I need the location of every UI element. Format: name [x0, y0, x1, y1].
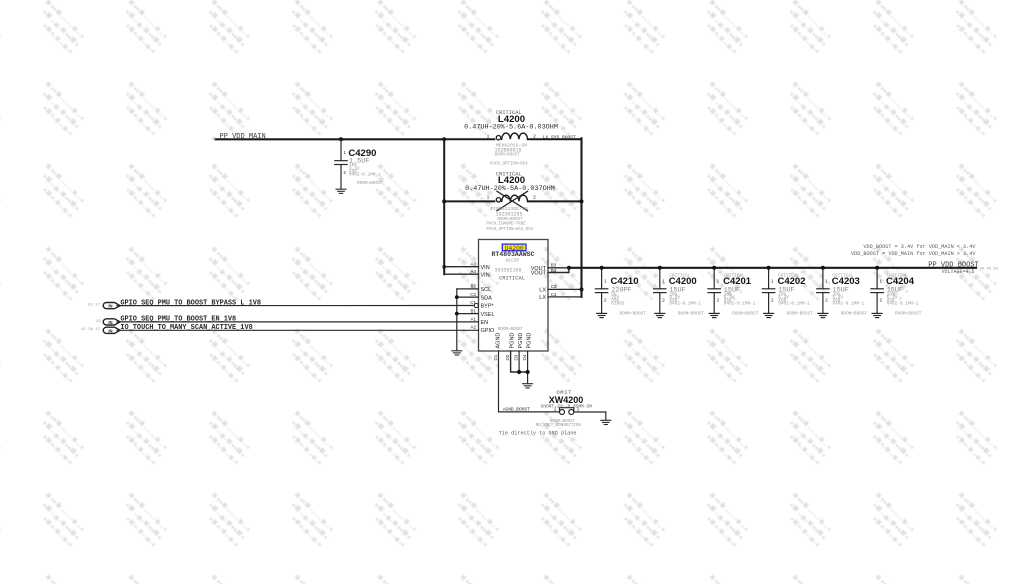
svg-text:01005: 01005 [611, 302, 625, 307]
pin name PGND rotated D4 [527, 333, 533, 349]
U4200 highlight refdes [502, 244, 526, 251]
wire VOUT B4 stub [548, 268, 569, 273]
svg-text:VIN: VIN [481, 272, 490, 278]
node junction at VIN A3 [442, 265, 446, 269]
pin name PGND rotated D3 [518, 333, 524, 349]
BYP active-low bubble [474, 303, 478, 307]
svg-text:1: 1 [825, 279, 828, 284]
svg-text:ROOM=BOOST: ROOM=BOOST [620, 312, 647, 317]
node junction VOUT [567, 266, 571, 270]
svg-text:2: 2 [825, 298, 828, 303]
svg-text:A1: A1 [470, 317, 476, 322]
svg-text:SHORT-2UL-0.05MM-SM: SHORT-2UL-0.05MM-SM [541, 403, 593, 409]
svg-text:A3: A3 [470, 262, 476, 267]
svg-text:1: 1 [487, 134, 490, 139]
wire PGND D2 [511, 351, 528, 372]
capacitor C4200 [654, 268, 666, 318]
svg-text:IO_TOUCH_TO_MANY_SCAN_ACTIVE_1: IO_TOUCH_TO_MANY_SCAN_ACTIVE_1V8 [120, 324, 252, 332]
svg-text:GPIO_SEQ_PMU_TO_BOOST_BYPASS_L: GPIO_SEQ_PMU_TO_BOOST_BYPASS_L_1V8 [120, 299, 261, 307]
ground for SCL/SDA/VSEL [452, 351, 462, 355]
wire LX vertical column [580, 138, 582, 297]
svg-text:0.47UH-20%-5.6A-0.03OHM: 0.47UH-20%-5.6A-0.03OHM [464, 123, 558, 131]
svg-text:SDA: SDA [481, 295, 493, 301]
svg-text:2: 2 [771, 298, 774, 303]
svg-text:29 27: 29 27 [88, 304, 101, 308]
svg-text:2: 2 [604, 298, 607, 303]
svg-text:VOLTAGE=4.5: VOLTAGE=4.5 [942, 269, 975, 275]
svg-text:0402-0.1MM-1: 0402-0.1MM-1 [669, 302, 701, 307]
svg-text:PGND: PGND [518, 333, 524, 349]
svg-text:D2: D2 [505, 354, 510, 360]
svg-text:BYP*: BYP* [481, 304, 495, 310]
svg-text:A2: A2 [470, 325, 476, 330]
svg-text:IN: IN [108, 328, 112, 333]
svg-text:EN: EN [481, 320, 489, 326]
svg-text:29: 29 [96, 320, 101, 324]
svg-text:IN: IN [108, 304, 112, 309]
svg-text:AGND_BOOST: AGND_BOOST [503, 407, 530, 413]
node junction SDA [455, 295, 459, 299]
inductor L4200 (bottom, unstuffed) [445, 195, 582, 202]
svg-text:1: 1 [604, 279, 607, 284]
net PP_VDD_BOOST rail wire [569, 267, 976, 269]
svg-text:1: 1 [662, 279, 665, 284]
wire PGND D4 [527, 351, 529, 383]
wire vertical feed to inductors and VIN [443, 139, 445, 274]
svg-text:A4: A4 [470, 269, 476, 274]
wire LX C3 stub [548, 288, 582, 290]
svg-text:VDD_BOOST = 3.4V for VDD_MAIN: VDD_BOOST = 3.4V for VDD_MAIN < 3.4V [863, 244, 976, 250]
svg-text:VIN: VIN [481, 265, 490, 271]
node junction at inductor 2 input [442, 199, 446, 203]
ground for XW4200 [601, 420, 611, 424]
pin number D2 rotated [505, 354, 510, 360]
svg-text:0402-0.1MM-1: 0402-0.1MM-1 [887, 302, 919, 307]
svg-text:2: 2 [533, 134, 536, 139]
svg-text:SCL: SCL [481, 287, 492, 293]
svg-text:24: 24 [212, 137, 217, 141]
wire LX C4 stub [548, 296, 582, 298]
svg-text:AGND: AGND [496, 333, 502, 349]
svg-text:LX_SYS_BOOST: LX_SYS_BOOST [543, 135, 576, 141]
capacitor C4201 [708, 268, 720, 318]
svg-text:WLCSP: WLCSP [506, 257, 520, 263]
svg-text:ROOM=BOOST: ROOM=BOOST [732, 312, 759, 317]
svg-text:PACK_IGNORE=TRUE: PACK_IGNORE=TRUE [486, 223, 526, 227]
svg-text:2: 2 [343, 170, 346, 175]
IC U4200 body [479, 240, 549, 352]
svg-text:B3: B3 [551, 262, 557, 267]
svg-text:PP_VDD_MAIN: PP_VDD_MAIN [220, 133, 266, 141]
svg-text:0402-0.1MM-1: 0402-0.1MM-1 [724, 302, 756, 307]
svg-text:1: 1 [717, 279, 720, 284]
pin name AGND rotated [496, 333, 502, 349]
inductor L4200 (top) [445, 133, 582, 140]
svg-text:1: 1 [343, 150, 346, 155]
svg-text:C2: C2 [470, 292, 476, 297]
svg-text:2: 2 [533, 195, 536, 200]
svg-text:D4: D4 [522, 354, 527, 360]
svg-text:PGND: PGND [527, 333, 533, 349]
watermark tiles [0, 0, 1, 1]
svg-text:CRITICAL: CRITICAL [499, 276, 525, 282]
svg-text:B2: B2 [470, 284, 476, 289]
node junction VSEL [455, 312, 459, 316]
capacitor C4203 [817, 268, 829, 318]
input port GPIO_SEQ_PMU_TO_BOOST_BYPASS_L_1V8 [103, 303, 120, 309]
svg-text:ROOM=BOOST: ROOM=BOOST [895, 312, 922, 317]
svg-text:152S01255: 152S01255 [495, 212, 522, 218]
svg-text:PACK_OPTION=054: PACK_OPTION=054 [490, 163, 528, 167]
svg-text:ROOM=BOOST: ROOM=BOOST [357, 181, 384, 186]
svg-text:ROOM=BOOST: ROOM=BOOST [787, 312, 814, 317]
svg-text:ROOM=BOOST: ROOM=BOOST [678, 312, 705, 317]
svg-text:2: 2 [717, 298, 720, 303]
node junction PGND D3 [517, 370, 521, 374]
pin number D1 rotated [493, 354, 498, 360]
svg-text:0.47UH-20%-5A-0.037OHM: 0.47UH-20%-5A-0.037OHM [465, 185, 555, 193]
svg-text:1: 1 [771, 279, 774, 284]
svg-text:C1: C1 [470, 300, 476, 305]
svg-text:Tie directly to GND plane: Tie directly to GND plane [499, 430, 577, 436]
svg-text:XW4200: XW4200 [549, 395, 584, 405]
svg-text:ROOM=BOOST: ROOM=BOOST [497, 218, 523, 222]
input port GPIO_SEQ_PMU_TO_BOOST_EN_1V8 [103, 319, 120, 325]
svg-text:D3: D3 [514, 354, 519, 360]
svg-text:C4: C4 [551, 292, 557, 297]
wire AGND D1 [499, 351, 559, 412]
svg-text:ROOM=BOOST: ROOM=BOOST [498, 328, 524, 332]
capacitor C4290 [335, 139, 347, 189]
svg-text:PGND: PGND [510, 333, 516, 349]
svg-text:0402-0.1MM-1: 0402-0.1MM-1 [349, 173, 381, 178]
ground for C4290 [336, 189, 346, 193]
capacitor C4204 [871, 268, 883, 318]
svg-text:353S02109: 353S02109 [494, 268, 521, 274]
svg-text:VDD_BOOST = VDD_MAIN for VDD_M: VDD_BOOST = VDD_MAIN for VDD_MAIN > 3.4V [851, 251, 976, 257]
capacitor C4210 [595, 268, 607, 318]
svg-text:NO_XNET_CONNECTION: NO_XNET_CONNECTION [536, 424, 582, 428]
node junction LX at C3 [580, 287, 584, 291]
wire EN input [117, 321, 479, 323]
wire BYP input [117, 305, 474, 307]
node junction PP_VDD_MAIN to inductor column [442, 137, 446, 141]
svg-text:2: 2 [662, 298, 665, 303]
svg-text:D1: D1 [493, 354, 498, 360]
svg-text:2: 2 [880, 298, 883, 303]
net PP_VDD_MAIN rail wire [216, 138, 445, 140]
node junction LX at inductor2 [580, 199, 584, 203]
wire GPIO input [117, 329, 479, 331]
capacitor C4202 [762, 268, 774, 318]
svg-text:C3: C3 [551, 284, 557, 289]
svg-text:0402-0.1MM-1: 0402-0.1MM-1 [778, 302, 810, 307]
input port IO_TOUCH_TO_MANY_SCAN_ACTIVE_1V8 [103, 327, 120, 333]
svg-text:ROOM=BOOST: ROOM=BOOST [841, 312, 868, 317]
svg-text:LX: LX [539, 295, 546, 301]
svg-text:VOUT: VOUT [531, 271, 547, 277]
pin number D4 rotated [522, 354, 527, 360]
svg-text:IN: IN [108, 320, 112, 325]
svg-text:1: 1 [487, 195, 490, 200]
svg-text:RT4803AAWSC: RT4803AAWSC [492, 251, 535, 258]
wire VIN A4 [444, 273, 478, 275]
ground for PGND [523, 384, 533, 388]
wire VIN A3 [444, 266, 478, 268]
pin number D3 rotated [514, 354, 519, 360]
node junction on PP_VDD_MAIN at C4290 [339, 137, 343, 141]
svg-text:GPIO: GPIO [481, 328, 495, 334]
svg-text:0402-0.1MM-1: 0402-0.1MM-1 [833, 302, 865, 307]
svg-text:ROOM=BOOST: ROOM=BOOST [495, 153, 521, 157]
wire PGND D3 [518, 351, 520, 372]
svg-text:VSEL: VSEL [481, 312, 495, 318]
L4200 bottom X cross (unstuffed) [497, 191, 528, 210]
pin name PGND rotated D2 [510, 333, 516, 349]
svg-text:PACK_OPTION=052,053: PACK_OPTION=052,053 [486, 228, 533, 232]
svg-text:GPIO_SEQ_PMU_TO_BOOST_EN_1V8: GPIO_SEQ_PMU_TO_BOOST_EN_1V8 [120, 316, 236, 324]
svg-text:30 40 39: 30 40 39 [980, 267, 999, 271]
svg-text:41 39 27: 41 39 27 [81, 328, 101, 332]
svg-text:B1: B1 [470, 308, 476, 313]
wire VOUT B3 stub [548, 267, 569, 269]
node junction PGND D4 [526, 370, 530, 374]
svg-text:LX: LX [539, 287, 546, 293]
jumper XW4200 [560, 408, 606, 420]
wire SCL/SDA/VSEL tie column [457, 289, 479, 351]
